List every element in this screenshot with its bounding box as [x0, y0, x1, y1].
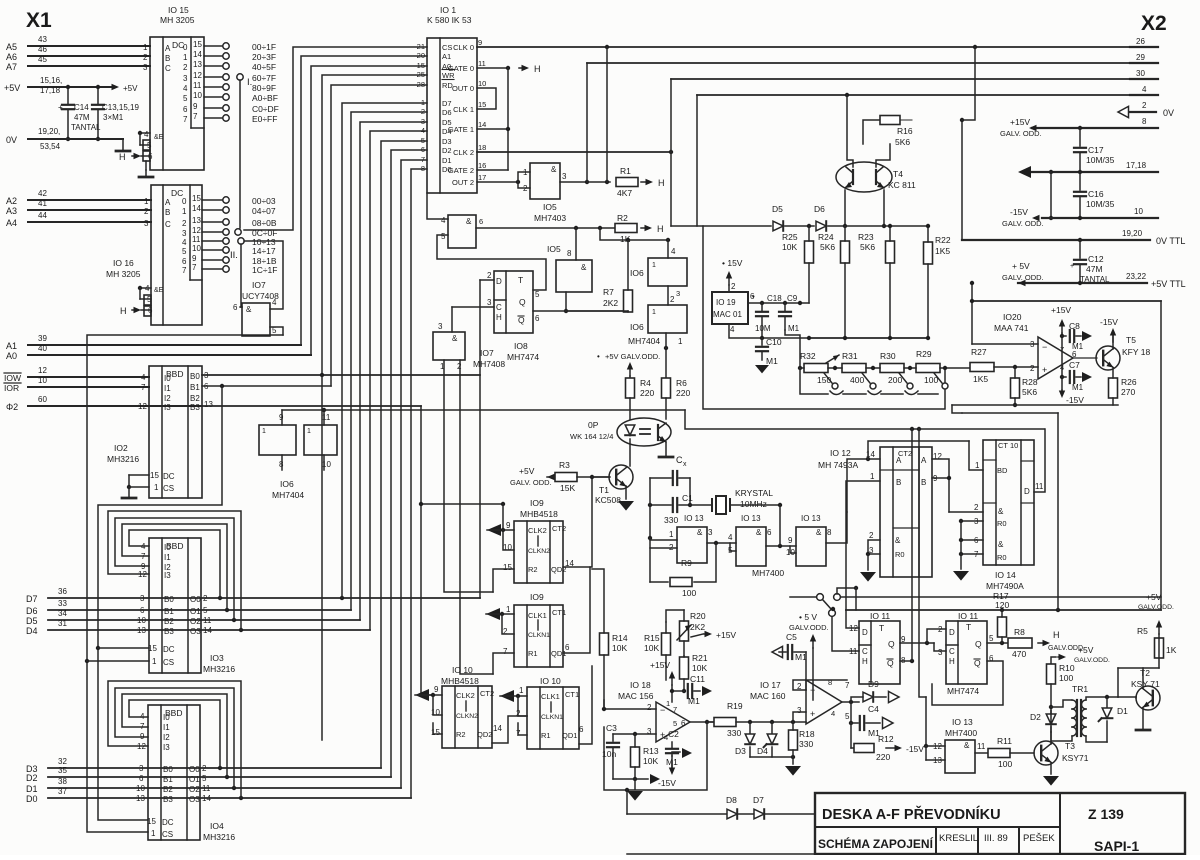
svg-text:DESKA A-F PŘEVODNÍKU: DESKA A-F PŘEVODNÍKU	[822, 805, 1001, 823]
wire D0 to IO1	[411, 169, 427, 798]
svg-text:QD1: QD1	[562, 731, 577, 740]
svg-text:7: 7	[193, 112, 198, 121]
svg-text:D1: D1	[442, 156, 452, 165]
svg-text:MH7403: MH7403	[534, 213, 566, 223]
svg-text:H: H	[1053, 630, 1060, 640]
wire t4 base2	[876, 144, 890, 167]
transistor pair T4 KC811	[836, 162, 892, 192]
svg-text:D1: D1	[26, 784, 38, 794]
capacitor C14	[67, 87, 69, 104]
svg-text:KFY 18: KFY 18	[1122, 347, 1150, 357]
IO9 CT2 divider	[537, 536, 539, 546]
svg-text:R22: R22	[935, 235, 951, 245]
-15V arrow io18	[671, 756, 673, 768]
wire io6d out	[665, 333, 667, 348]
svg-text:• 15V: • 15V	[722, 258, 743, 268]
resistor R10 100	[1047, 664, 1056, 684]
svg-text:43: 43	[38, 35, 47, 44]
svg-text:2: 2	[183, 63, 188, 72]
wire rail link	[952, 405, 962, 413]
wire clkn2 loop	[503, 530, 514, 550]
svg-text:14÷17: 14÷17	[252, 246, 276, 256]
svg-text:CLKN2: CLKN2	[456, 713, 478, 720]
wire D4 to IO1	[370, 131, 427, 630]
svg-text:IO 10: IO 10	[540, 676, 561, 686]
svg-text:220: 220	[676, 388, 690, 398]
wire io14 r0 dots	[961, 520, 983, 522]
svg-text:10: 10	[1134, 207, 1143, 216]
wire bottom d8d7	[627, 813, 815, 815]
svg-text:12: 12	[138, 402, 147, 411]
wire io11a qb	[900, 660, 912, 662]
title block frame	[815, 793, 1185, 854]
svg-text:2: 2	[670, 295, 675, 304]
svg-text:−: −	[660, 705, 665, 715]
resistor R12 220	[850, 723, 852, 748]
svg-text:H: H	[534, 64, 541, 74]
wire galv left edge	[696, 95, 698, 226]
-15V arrow io20	[1061, 390, 1063, 394]
wire to R1	[587, 181, 610, 183]
svg-text:15: 15	[193, 40, 202, 49]
svg-text:I3: I3	[164, 403, 171, 412]
svg-text:M1: M1	[688, 696, 700, 706]
svg-text:47M: 47M	[74, 113, 90, 122]
opto transistor	[657, 425, 659, 440]
svg-text:CS: CS	[163, 484, 174, 493]
svg-text:IO6: IO6	[280, 479, 294, 489]
svg-text:D: D	[862, 628, 868, 637]
svg-text:3: 3	[487, 298, 492, 307]
wire io12 A out	[932, 459, 949, 512]
svg-text:IO 10: IO 10	[452, 665, 473, 675]
svg-text:T4: T4	[893, 169, 903, 179]
arrow R20 wiper	[677, 625, 691, 640]
svg-text:I.: I.	[247, 77, 252, 88]
svg-text:B1: B1	[164, 607, 174, 616]
svg-text:R1: R1	[528, 649, 538, 658]
svg-text:T2: T2	[1140, 668, 1150, 678]
svg-text:3: 3	[562, 172, 567, 181]
svg-text:R27: R27	[971, 347, 987, 357]
wire loop IO3 O3	[239, 628, 243, 632]
svg-text:33: 33	[58, 599, 67, 608]
arrow r32 wiper	[826, 355, 839, 363]
wire clk tap branch	[421, 503, 503, 505]
wire cx left	[649, 478, 651, 538]
wire IO7a out 5	[270, 327, 283, 335]
wire IOW to IO1	[322, 75, 427, 375]
svg-text:R8: R8	[1014, 627, 1025, 637]
svg-text:QD2: QD2	[477, 730, 492, 739]
wire gnd rail2	[809, 337, 928, 339]
svg-text:H: H	[120, 306, 127, 316]
wire IO7b out	[451, 307, 453, 332]
svg-text:4: 4	[144, 130, 149, 139]
svg-text:+ 5V: + 5V	[1012, 261, 1030, 271]
wire D5 to IO1	[360, 122, 427, 620]
svg-text:10: 10	[38, 376, 47, 385]
wire io13c out	[826, 512, 847, 543]
svg-text:C4: C4	[868, 704, 879, 714]
svg-text:GALV.ODD.: GALV.ODD.	[1138, 604, 1174, 611]
ground	[122, 139, 124, 150]
svg-text:B3: B3	[190, 403, 200, 412]
wire r19 out	[736, 721, 806, 723]
arrow +5V r5	[1158, 624, 1160, 634]
svg-text:37: 37	[58, 787, 67, 796]
svg-text:IO 12: IO 12	[830, 448, 851, 458]
svg-text:MH 3205: MH 3205	[106, 269, 141, 279]
svg-text:O2: O2	[189, 785, 200, 794]
wire gate chain	[507, 68, 509, 170]
arrow -15V r12	[886, 747, 898, 749]
svg-text:3×M1: 3×M1	[103, 113, 124, 122]
wire io11a q	[900, 642, 934, 644]
wire switch drop	[832, 617, 859, 651]
svg-text:DC: DC	[163, 472, 175, 481]
svg-text:R9: R9	[681, 558, 692, 568]
wire io12 B in	[846, 481, 880, 610]
svg-text:M1: M1	[788, 324, 800, 333]
svg-text:11: 11	[849, 647, 858, 656]
wire QD2 out	[563, 477, 592, 567]
wire crystal to io13c	[779, 505, 781, 546]
svg-text:MH7474: MH7474	[947, 686, 979, 696]
wire GATE0	[477, 67, 508, 69]
svg-text:IO 15: IO 15	[168, 5, 189, 15]
svg-text:3: 3	[144, 219, 149, 228]
wire galv bottom	[703, 226, 945, 409]
svg-text:R4: R4	[640, 378, 651, 388]
svg-text:1: 1	[652, 309, 656, 316]
sheet bottom border	[627, 853, 1185, 855]
svg-text:2: 2	[974, 503, 979, 512]
arrow +15V R20	[691, 634, 703, 637]
svg-text:R29: R29	[916, 349, 932, 359]
svg-text:1: 1	[975, 461, 980, 470]
svg-text:E0÷FF: E0÷FF	[252, 114, 277, 124]
opto LED	[625, 425, 635, 435]
svg-text:6: 6	[479, 217, 483, 226]
svg-text:R10: R10	[1059, 663, 1075, 673]
arrow 0V	[1118, 106, 1129, 117]
svg-text:C11: C11	[690, 674, 705, 684]
svg-text:CS: CS	[162, 830, 173, 839]
svg-text:5K6: 5K6	[1022, 387, 1037, 397]
wire io19 gnd	[729, 324, 809, 338]
svg-text:CT2: CT2	[480, 689, 494, 698]
svg-text:TANTAL: TANTAL	[71, 123, 101, 132]
svg-text:D5: D5	[772, 204, 783, 214]
svg-text:C2: C2	[668, 729, 679, 739]
svg-text:R7: R7	[603, 287, 614, 297]
wire A1 to IO1	[301, 56, 427, 345]
svg-text:C16: C16	[1088, 189, 1104, 199]
svg-text:15: 15	[150, 471, 159, 480]
svg-text:R19: R19	[727, 701, 743, 711]
wire D7 to IO1	[342, 103, 427, 598]
wire OUT2	[477, 181, 518, 183]
svg-text:I0: I0	[163, 713, 170, 722]
svg-text:&: &	[998, 540, 1004, 549]
svg-text:20÷3F: 20÷3F	[252, 52, 276, 62]
wire y63 riser	[586, 63, 588, 182]
svg-text:4K7: 4K7	[617, 188, 632, 198]
svg-text:+: +	[810, 709, 815, 719]
svg-text:4: 4	[730, 325, 735, 334]
wire c5 riser	[805, 652, 807, 690]
capacitor C16 10M/35	[1079, 172, 1081, 190]
svg-text:15K: 15K	[560, 483, 575, 493]
svg-text:120: 120	[995, 600, 1009, 610]
svg-text:38: 38	[58, 777, 67, 786]
svg-text:1K5: 1K5	[973, 374, 988, 384]
svg-text:MH7408: MH7408	[473, 359, 505, 369]
svg-text:IO8: IO8	[514, 341, 528, 351]
svg-text:IO2: IO2	[114, 443, 128, 453]
svg-text:IO20: IO20	[1003, 312, 1022, 322]
wire A0 to IO1	[311, 66, 427, 355]
svg-text:IO3: IO3	[210, 653, 224, 663]
svg-text:17,18: 17,18	[1126, 161, 1147, 170]
svg-text:60: 60	[38, 395, 47, 404]
ground io12	[867, 554, 869, 570]
wire io17 plus	[793, 712, 806, 722]
opto arrows	[640, 428, 650, 430]
svg-text:C12: C12	[1088, 254, 1104, 264]
wire CS chain	[87, 335, 283, 832]
svg-text:3: 3	[143, 63, 148, 72]
svg-text:MAC 01: MAC 01	[713, 310, 742, 319]
switch contact b	[834, 594, 841, 601]
svg-text:7: 7	[182, 266, 187, 275]
svg-text:MH7474: MH7474	[507, 352, 539, 362]
svg-text:4: 4	[441, 216, 446, 225]
svg-text:10K: 10K	[782, 242, 797, 252]
svg-text:I3: I3	[164, 571, 171, 580]
svg-text:+5V: +5V	[519, 466, 535, 476]
svg-text:GATE 0: GATE 0	[448, 64, 474, 73]
svg-text:2: 2	[182, 219, 187, 228]
svg-text:CLK1: CLK1	[528, 611, 547, 620]
wire loop IO4 O1	[225, 775, 229, 779]
wire I. select	[239, 80, 241, 228]
svg-text:+5V: +5V	[123, 84, 138, 93]
wire r32 left	[800, 367, 804, 369]
svg-text:&: &	[581, 263, 587, 272]
resistor R21 10K	[680, 657, 689, 679]
capacitor C4 M1	[850, 702, 852, 723]
svg-text:B2: B2	[163, 785, 173, 794]
wire r1b loop	[518, 723, 527, 735]
wire io13b out	[766, 545, 796, 547]
svg-text:2: 2	[731, 282, 736, 291]
svg-text:35: 35	[58, 766, 67, 775]
svg-text:9: 9	[434, 685, 439, 694]
svg-text:10K: 10K	[643, 756, 658, 766]
svg-text:Q: Q	[519, 297, 526, 307]
wire io19 out	[748, 302, 809, 304]
svg-text:1: 1	[143, 43, 148, 52]
wire IOR to IO1	[331, 85, 427, 386]
svg-text:R0: R0	[997, 553, 1007, 562]
svg-text:1: 1	[154, 483, 159, 492]
svg-text:O3: O3	[190, 627, 201, 636]
svg-text:1: 1	[182, 207, 187, 216]
svg-text:D8: D8	[726, 795, 737, 805]
svg-text:TR1: TR1	[1072, 684, 1088, 694]
inverter IO6 a	[259, 425, 296, 455]
arrow clk1	[486, 608, 500, 620]
ground r18	[785, 766, 801, 776]
svg-text:MHB4518: MHB4518	[520, 509, 558, 519]
svg-text:47M: 47M	[1086, 264, 1103, 274]
svg-text:C17: C17	[1088, 145, 1104, 155]
wire IO5b out	[476, 227, 615, 229]
svg-text:H: H	[949, 657, 955, 666]
svg-text:C5: C5	[786, 632, 797, 642]
svg-text:5: 5	[202, 774, 207, 783]
wire t2 emitter	[1142, 708, 1144, 729]
svg-text:III. 89: III. 89	[984, 833, 1008, 844]
svg-text:IO 13: IO 13	[952, 717, 973, 727]
svg-text:1: 1	[262, 428, 266, 435]
svg-text:1: 1	[652, 262, 656, 269]
svg-text:IOR: IOR	[4, 383, 19, 393]
svg-text:29: 29	[1136, 53, 1145, 62]
wire io17 minus loop	[793, 680, 847, 690]
svg-text:Z 139: Z 139	[1088, 806, 1124, 822]
diode D8	[727, 809, 737, 819]
svg-text:D7: D7	[26, 594, 38, 604]
svg-text:R2: R2	[617, 213, 628, 223]
wire io11b qb	[932, 661, 1003, 705]
svg-text:2: 2	[143, 53, 148, 62]
wire clock row	[282, 409, 685, 411]
svg-text:•: •	[597, 352, 600, 361]
svg-text:A0: A0	[6, 351, 17, 361]
svg-text:C: C	[165, 220, 171, 229]
wire D1 to IO1	[401, 160, 427, 788]
wire IO8 D	[480, 279, 494, 281]
svg-text:34: 34	[58, 609, 67, 618]
svg-text:MAA 741: MAA 741	[994, 323, 1029, 333]
svg-text:T5: T5	[1126, 335, 1136, 345]
svg-text:0: 0	[182, 197, 187, 206]
svg-text:R15: R15	[644, 633, 660, 643]
svg-text:&: &	[452, 334, 458, 343]
wire io13d out	[975, 752, 988, 754]
switch s2	[870, 383, 876, 389]
resistor R15 10K	[662, 633, 671, 655]
svg-text:A6: A6	[6, 52, 17, 62]
svg-text:08÷0B: 08÷0B	[252, 218, 277, 228]
svg-text:&: &	[964, 741, 970, 750]
svg-text:1: 1	[870, 472, 875, 481]
wire io20 out	[1073, 357, 1097, 359]
flip-flop IO8 MH7474	[494, 271, 533, 333]
svg-text:OUT 0: OUT 0	[452, 84, 474, 93]
svg-text:C9: C9	[787, 294, 798, 303]
arrow c2	[671, 754, 673, 756]
svg-text:470: 470	[1012, 649, 1026, 659]
svg-text:8: 8	[567, 249, 572, 258]
svg-text:12: 12	[192, 226, 201, 235]
svg-text:17: 17	[478, 173, 486, 182]
wire t4 emitter2	[883, 190, 885, 226]
capacitor C17 10M/35	[1078, 126, 1082, 130]
svg-text:R28: R28	[1022, 377, 1038, 387]
svg-text:Q: Q	[888, 639, 895, 649]
svg-text:IO4: IO4	[210, 821, 224, 831]
svg-text:+15V: +15V	[716, 630, 736, 640]
wire loop IO4 O3	[239, 796, 243, 800]
svg-text:GALV.ODD.: GALV.ODD.	[789, 623, 829, 632]
svg-text:1: 1	[151, 829, 156, 838]
wire tr1 right	[1086, 697, 1118, 700]
svg-text:MH 7493A: MH 7493A	[818, 460, 858, 470]
svg-text:B3: B3	[163, 795, 173, 804]
wire t4 emitter1	[844, 190, 846, 226]
svg-text:D2: D2	[26, 773, 38, 783]
wire r29 right	[940, 367, 971, 369]
svg-text:D6: D6	[814, 204, 825, 214]
svg-text:100: 100	[1059, 673, 1073, 683]
svg-text:C: C	[676, 455, 683, 465]
svg-text:220: 220	[876, 752, 890, 762]
svg-text:C: C	[496, 303, 502, 312]
svg-text:220: 220	[640, 388, 654, 398]
wire switch bus	[800, 368, 828, 394]
svg-text:GATE 1: GATE 1	[448, 125, 474, 134]
svg-text:Φ2: Φ2	[6, 402, 18, 412]
svg-text:A1: A1	[442, 52, 451, 61]
resistor R8 470	[1008, 638, 1032, 648]
gate IO7 MH7408	[433, 332, 465, 360]
svg-text:&: &	[466, 217, 472, 226]
wire CLK0 to X2 pin 26	[477, 46, 1158, 48]
svg-text:A1: A1	[6, 341, 17, 351]
arrow T1 emitter	[625, 486, 627, 499]
svg-text:31: 31	[58, 619, 67, 628]
svg-text:6: 6	[233, 303, 238, 312]
svg-text:R31: R31	[842, 351, 858, 361]
svg-text:13: 13	[193, 60, 202, 69]
wire t3 collector	[1050, 710, 1052, 744]
svg-text:MH7404: MH7404	[272, 490, 304, 500]
svg-text:GALV. ODD.: GALV. ODD.	[510, 478, 552, 487]
svg-text:330: 330	[799, 739, 813, 749]
svg-text:44: 44	[38, 211, 47, 220]
svg-text:K 580 IK 53: K 580 IK 53	[427, 15, 472, 25]
svg-text:R13: R13	[643, 746, 659, 756]
svg-text:400: 400	[850, 375, 864, 385]
switch s4	[942, 383, 948, 389]
svg-text:O0: O0	[190, 595, 201, 604]
svg-text:D6: D6	[26, 606, 38, 616]
arrow R2 H	[641, 227, 648, 229]
svg-text:T: T	[879, 623, 884, 633]
svg-text:53,54: 53,54	[40, 142, 61, 151]
wire r20 top	[666, 610, 684, 622]
svg-text:R18: R18	[799, 729, 815, 739]
diode D9	[863, 692, 873, 702]
svg-text:2: 2	[1030, 364, 1035, 373]
svg-text:100: 100	[682, 588, 696, 598]
svg-text:IO 17: IO 17	[760, 680, 781, 690]
svg-text:H: H	[496, 313, 502, 322]
